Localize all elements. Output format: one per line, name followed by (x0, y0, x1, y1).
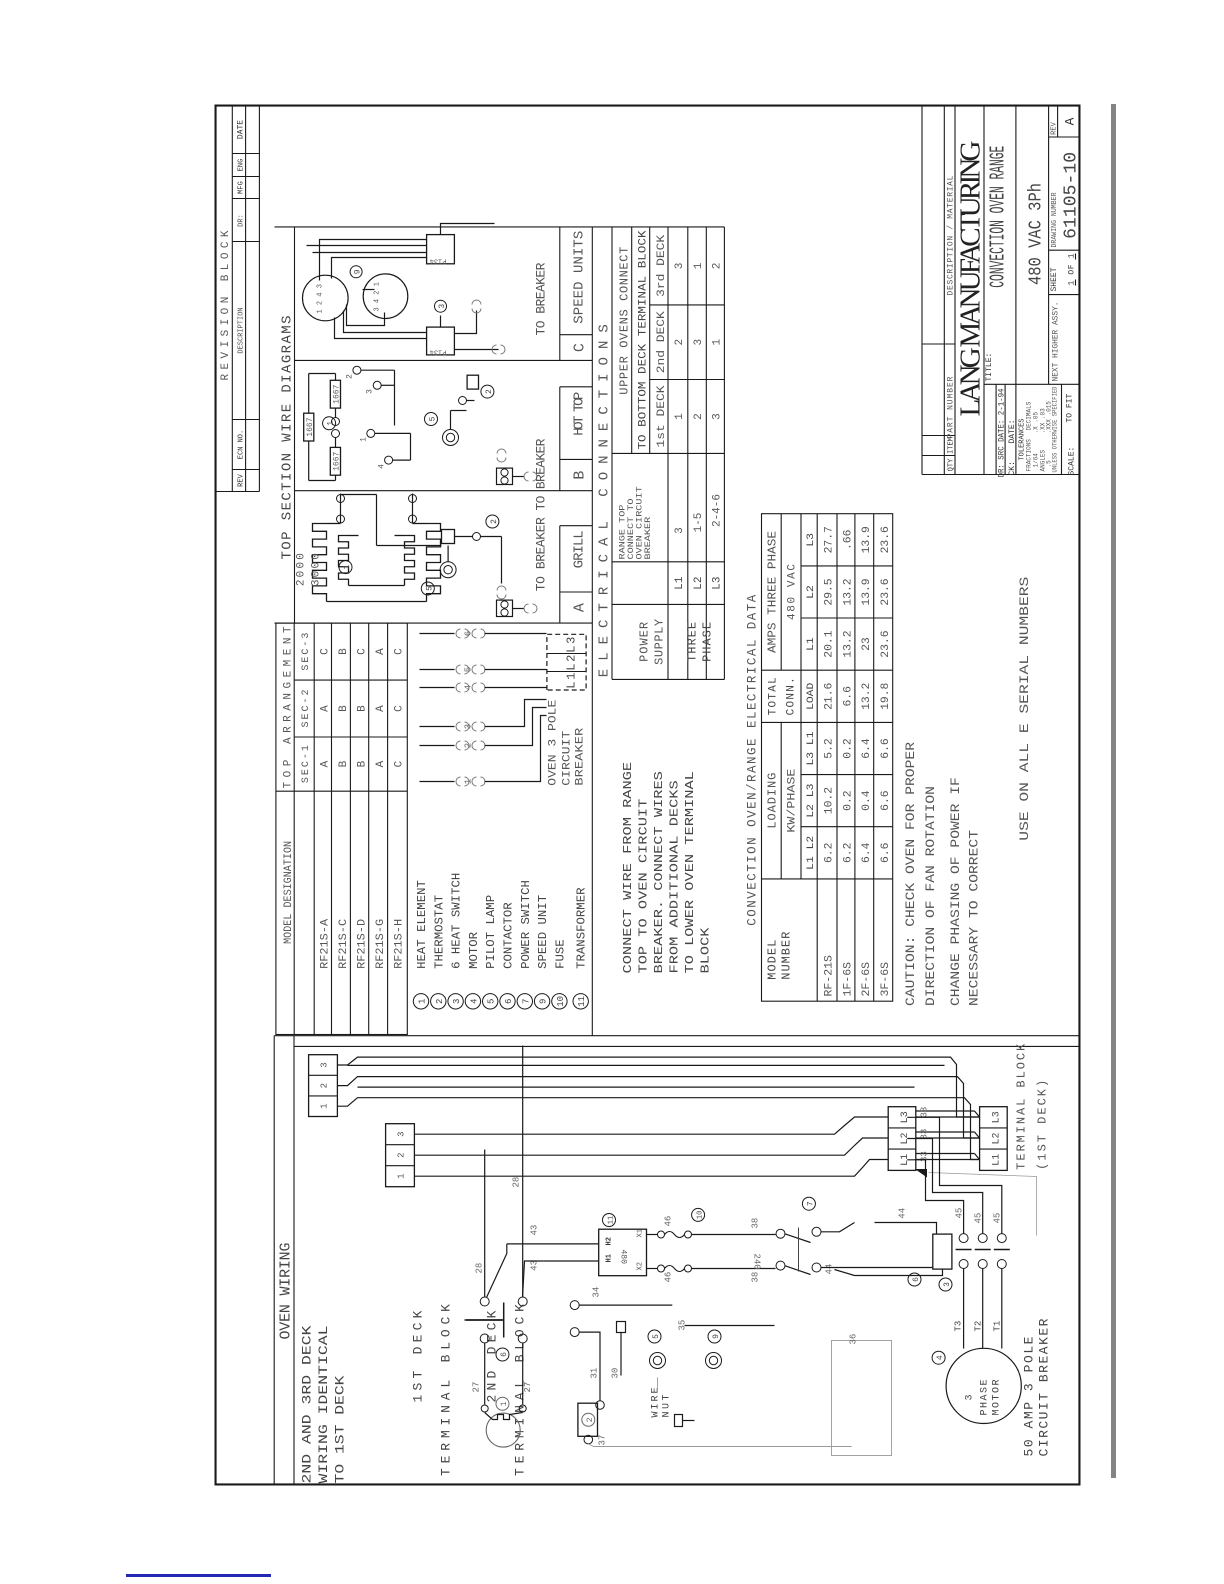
svg-text:BREAKER. CONNECT WIRES: BREAKER. CONNECT WIRES (652, 771, 666, 973)
svg-text:RF-21S: RF-21S (824, 955, 836, 997)
svg-text:6.6: 6.6 (880, 738, 892, 758)
svg-text:33: 33 (920, 1129, 930, 1140)
svg-text:6.6: 6.6 (880, 790, 892, 810)
svg-text:MFG: MFG (238, 181, 246, 194)
svg-text:A: A (1063, 117, 1078, 125)
svg-text:A: A (320, 705, 332, 712)
svg-text:DRAWING NUMBER: DRAWING NUMBER (1051, 192, 1059, 248)
svg-text:B: B (338, 705, 350, 712)
svg-text:L1: L1 (806, 637, 817, 651)
svg-text:2-4-6: 2-4-6 (712, 494, 724, 527)
svg-text:2ND AND 3RD DECK: 2ND AND 3RD DECK (300, 1325, 315, 1483)
svg-text:2: 2 (693, 413, 705, 420)
svg-text:P134: P134 (430, 348, 447, 356)
svg-text:TERMINAL BLOCK: TERMINAL BLOCK (1015, 1043, 1029, 1170)
svg-text:38: 38 (751, 1272, 761, 1283)
svg-text:27: 27 (523, 1382, 533, 1393)
svg-text:30: 30 (611, 1368, 621, 1379)
svg-text:CIRCUIT: CIRCUIT (562, 730, 574, 785)
svg-text:3rd DECK: 3rd DECK (656, 234, 668, 296)
svg-text:9: 9 (712, 1334, 721, 1339)
svg-text:A: A (375, 705, 387, 712)
svg-text:28: 28 (475, 1263, 485, 1274)
svg-text:46: 46 (664, 1272, 674, 1283)
svg-text:TO LOWER OVEN TERMINAL: TO LOWER OVEN TERMINAL (683, 771, 697, 973)
svg-text:CIRCUIT BREAKER: CIRCUIT BREAKER (1037, 1318, 1052, 1456)
svg-text:13.2: 13.2 (842, 630, 854, 657)
svg-text:REV: REV (1051, 121, 1059, 134)
svg-text:QTY: QTY (948, 458, 956, 471)
svg-text:1F-6S: 1F-6S (842, 962, 854, 997)
svg-text:SCALE:: SCALE: (1068, 447, 1077, 476)
svg-text:SEC-1: SEC-1 (301, 745, 312, 783)
svg-text:3: 3 (320, 1062, 330, 1067)
svg-text:TOP TO OVEN CIRCUIT: TOP TO OVEN CIRCUIT (637, 799, 651, 974)
svg-text:1st DECK: 1st DECK (656, 385, 668, 447)
svg-text:LOAD: LOAD (806, 683, 817, 710)
svg-text:ITEM: ITEM (948, 437, 956, 454)
svg-text:BREAKER: BREAKER (575, 727, 587, 785)
svg-text:L1: L1 (992, 1154, 1003, 1166)
svg-text:OVEN 3 POLE: OVEN 3 POLE (548, 699, 560, 785)
svg-text:TOP ARRANGEMENT: TOP ARRANGEMENT (283, 626, 295, 788)
svg-text:FROM ADDITIONAL DECKS: FROM ADDITIONAL DECKS (668, 780, 682, 973)
svg-text:MODEL: MODEL (766, 940, 780, 980)
svg-text:TO BREAKER: TO BREAKER (534, 438, 549, 510)
svg-text:C: C (394, 705, 406, 712)
svg-text:2: 2 (320, 1083, 330, 1088)
svg-text:2: 2 (586, 1417, 595, 1422)
svg-text:480 VAC 3Ph: 480 VAC 3Ph (1027, 183, 1047, 285)
svg-text:10: 10 (697, 1211, 705, 1219)
svg-text:ELECTRICAL CONNECTIONS: ELECTRICAL CONNECTIONS (597, 324, 613, 677)
svg-text:MOTOR: MOTOR (467, 932, 481, 969)
svg-text:2: 2 (397, 1152, 407, 1157)
svg-text:2000: 2000 (296, 553, 308, 586)
svg-text:BREAKER: BREAKER (644, 517, 653, 560)
svg-text:6: 6 (504, 999, 514, 1004)
svg-text:B: B (572, 471, 589, 480)
svg-text:2: 2 (712, 263, 724, 270)
svg-text:L1: L1 (674, 576, 686, 590)
svg-text:45: 45 (993, 1213, 1003, 1224)
svg-text:C: C (320, 648, 332, 655)
svg-text:L1 L2: L1 L2 (806, 836, 817, 870)
svg-text:FRACTIONS: FRACTIONS (1026, 439, 1033, 472)
svg-text:2: 2 (346, 374, 355, 379)
svg-text:C: C (394, 760, 406, 767)
svg-text:CONVECTION OVEN RANGE: CONVECTION OVEN RANGE (988, 146, 1011, 288)
svg-text:NUT: NUT (662, 1395, 673, 1418)
svg-text:WIRING IDENTICAL: WIRING IDENTICAL (316, 1326, 331, 1484)
svg-text:6.2: 6.2 (824, 843, 836, 863)
svg-text:1667: 1667 (333, 384, 342, 403)
svg-text:6: 6 (500, 1352, 509, 1357)
svg-text:POWER: POWER (638, 622, 652, 662)
svg-text:USE ON ALL E SERIAL NUMBERS: USE ON ALL E SERIAL NUMBERS (1017, 576, 1032, 840)
svg-text:B: B (356, 705, 368, 712)
svg-text:WIRE: WIRE (651, 1388, 662, 1418)
svg-text:SEC-3: SEC-3 (301, 633, 312, 671)
svg-text:T1: T1 (993, 1321, 1003, 1332)
svg-text:13.9: 13.9 (861, 526, 873, 553)
svg-text:2F-6S: 2F-6S (861, 962, 873, 997)
svg-text:TERMINAL BLOCK: TERMINAL BLOCK (439, 1304, 454, 1476)
svg-text:L3: L3 (992, 1111, 1003, 1123)
svg-text:CONNECT WIRE FROM RANGE: CONNECT WIRE FROM RANGE (621, 762, 635, 974)
svg-text:A: A (572, 603, 589, 612)
svg-text:240: 240 (752, 1254, 762, 1270)
svg-text:HEAT ELEMENT: HEAT ELEMENT (415, 880, 429, 969)
svg-text:1: 1 (500, 1401, 509, 1406)
svg-text:0.2: 0.2 (842, 790, 854, 810)
svg-text:3: 3 (397, 1131, 407, 1136)
svg-text:TRANSFORMER: TRANSFORMER (575, 888, 589, 969)
svg-text:TO BREAKER: TO BREAKER (534, 262, 549, 335)
svg-text:X2: X2 (637, 1262, 645, 1270)
svg-text:34: 34 (592, 1287, 602, 1298)
svg-text:H1: H1 (606, 1254, 614, 1262)
svg-text:45: 45 (974, 1213, 984, 1224)
svg-text:9: 9 (539, 999, 549, 1004)
svg-text:GRILL: GRILL (572, 530, 588, 568)
svg-text:2: 2 (490, 519, 499, 524)
svg-text:A: A (320, 760, 332, 767)
svg-text:SPEED UNITS: SPEED UNITS (572, 231, 588, 324)
svg-text:50 AMP 3 POLE: 50 AMP 3 POLE (1022, 1336, 1037, 1456)
svg-text:UPPER OVENS CONNECT: UPPER OVENS CONNECT (618, 247, 632, 395)
svg-text:X1: X1 (637, 1229, 645, 1237)
svg-text:DESCRIPTION: DESCRIPTION (238, 307, 246, 353)
svg-text:1: 1 (320, 1103, 330, 1108)
svg-text:44: 44 (898, 1208, 908, 1219)
svg-text:1: 1 (360, 437, 369, 442)
svg-text:3: 3 (943, 1282, 952, 1287)
svg-text:3000: 3000 (311, 553, 323, 586)
svg-text:RF21S-G: RF21S-G (375, 919, 387, 969)
svg-text:3F-6S: 3F-6S (880, 962, 892, 997)
svg-text:3: 3 (452, 999, 462, 1004)
svg-text:TOP SECTION WIRE DIAGRAMS: TOP SECTION WIRE DIAGRAMS (280, 316, 296, 560)
svg-text:B: B (338, 760, 350, 767)
svg-text:10: 10 (556, 996, 566, 1007)
svg-text:RF21S-D: RF21S-D (356, 918, 368, 968)
svg-text:7: 7 (521, 999, 531, 1004)
svg-text:11: 11 (577, 996, 587, 1007)
svg-text:27.7: 27.7 (824, 526, 836, 553)
svg-text:.66: .66 (842, 530, 854, 550)
svg-text:5: 5 (652, 1334, 661, 1339)
svg-text:(1ST DECK): (1ST DECK) (1036, 1080, 1050, 1170)
svg-text:B: B (338, 648, 350, 655)
svg-text:3: 3 (366, 389, 375, 394)
svg-text:6 HEAT SWITCH: 6 HEAT SWITCH (450, 873, 464, 969)
svg-text:19.8: 19.8 (880, 683, 892, 710)
svg-text:DIRECTION OF FAN ROTATION: DIRECTION OF FAN ROTATION (923, 786, 938, 1006)
svg-text:23.6: 23.6 (880, 526, 892, 553)
svg-text:LANG MANUFACTURING: LANG MANUFACTURING (955, 140, 987, 416)
svg-text:CHANGE PHASING OF POWER IF: CHANGE PHASING OF POWER IF (948, 777, 963, 1006)
svg-text:PILOT LAMP: PILOT LAMP (484, 895, 498, 969)
svg-text:6.2: 6.2 (842, 843, 854, 863)
svg-text:23: 23 (861, 637, 873, 651)
svg-text:23.6: 23.6 (880, 630, 892, 657)
svg-text:21.6: 21.6 (824, 683, 836, 710)
svg-text:7: 7 (806, 1201, 815, 1206)
svg-text:L1L2L3: L1L2L3 (565, 637, 579, 689)
svg-text:35: 35 (678, 1320, 688, 1331)
svg-text:C: C (394, 648, 406, 655)
svg-text:6.6: 6.6 (880, 843, 892, 863)
svg-text:C: C (356, 648, 368, 655)
svg-text:3: 3 (674, 527, 686, 534)
svg-text:A: A (375, 760, 387, 767)
svg-text:13.2: 13.2 (861, 683, 873, 710)
svg-text:T3: T3 (954, 1321, 964, 1332)
svg-text:5: 5 (429, 416, 438, 421)
svg-text:DECIMALS: DECIMALS (1026, 401, 1033, 430)
svg-text:9: 9 (354, 269, 363, 274)
svg-text:1: 1 (343, 565, 352, 570)
svg-text:C: C (572, 343, 589, 352)
svg-text:1: 1 (674, 413, 686, 420)
svg-text:20.1: 20.1 (824, 630, 836, 658)
svg-text:L3: L3 (712, 576, 724, 589)
svg-text:3: 3 (965, 1394, 976, 1400)
svg-text:SHEET: SHEET (1050, 267, 1059, 291)
svg-text:1: 1 (397, 1173, 407, 1178)
svg-text:1667: 1667 (333, 451, 342, 470)
svg-text:61105-10: 61105-10 (1062, 152, 1081, 239)
svg-text:RF21S-H: RF21S-H (394, 919, 406, 969)
svg-text:480: 480 (619, 1250, 628, 1265)
svg-text:SUPPLY: SUPPLY (653, 619, 667, 665)
svg-text:6.4: 6.4 (861, 842, 873, 863)
svg-text:0.2: 0.2 (842, 738, 854, 758)
svg-text:AMPS THREE PHASE: AMPS THREE PHASE (766, 531, 780, 653)
svg-text:5.2: 5.2 (824, 738, 836, 758)
svg-text:33: 33 (920, 1107, 930, 1118)
svg-text:44: 44 (825, 1264, 835, 1275)
svg-text:27: 27 (472, 1382, 482, 1393)
svg-text:L2: L2 (693, 576, 705, 589)
svg-text:1/64: 1/64 (1033, 453, 1040, 468)
svg-text:DR:: DR: (238, 214, 246, 227)
svg-text:4: 4 (469, 999, 479, 1004)
svg-text:L2 L3: L2 L3 (806, 784, 817, 818)
svg-text:43: 43 (530, 1225, 540, 1236)
svg-text:1667: 1667 (306, 417, 315, 436)
svg-text:FUSE: FUSE (553, 939, 567, 969)
svg-text:5: 5 (425, 586, 434, 591)
svg-text:4: 4 (936, 1355, 945, 1360)
svg-text:MOTOR: MOTOR (992, 1380, 1003, 1416)
svg-text:31: 31 (590, 1368, 600, 1379)
svg-text:POWER SWITCH: POWER SWITCH (519, 880, 533, 969)
svg-text:NEXT HIGHER ASSY.: NEXT HIGHER ASSY. (1052, 302, 1061, 382)
svg-text:HOT TOP: HOT TOP (572, 392, 588, 436)
svg-text:13.9: 13.9 (861, 578, 873, 605)
svg-text:.X .05: .X .05 (1033, 411, 1040, 433)
svg-text:PHASE: PHASE (980, 1380, 991, 1416)
svg-text:1: 1 (693, 262, 705, 269)
svg-text:NECESSARY TO CORRECT: NECESSARY TO CORRECT (967, 830, 982, 1006)
svg-text:2ND DECK: 2ND DECK (485, 1310, 500, 1402)
svg-text:1: 1 (712, 339, 724, 346)
svg-text:L2: L2 (992, 1132, 1003, 1144)
svg-text:L3 L1: L3 L1 (806, 732, 817, 766)
svg-text:13.2: 13.2 (842, 578, 854, 605)
svg-text:UNLESS OTHERWISE SPECIFIED: UNLESS OTHERWISE SPECIFIED (1052, 386, 1059, 472)
svg-text:L2: L2 (806, 585, 817, 599)
svg-text:45: 45 (955, 1208, 965, 1219)
svg-text:1 2 4 3: 1 2 4 3 (317, 284, 325, 313)
svg-text:3: 3 (712, 413, 724, 420)
svg-text:5: 5 (487, 999, 497, 1004)
svg-text:ENG: ENG (238, 159, 246, 172)
svg-text:1ST DECK: 1ST DECK (411, 1310, 426, 1402)
svg-text:T2: T2 (974, 1321, 984, 1332)
svg-text:3: 3 (674, 263, 686, 270)
svg-text:11: 11 (608, 1216, 616, 1224)
svg-text:1: 1 (418, 999, 428, 1004)
svg-text:SEC-2: SEC-2 (301, 690, 312, 728)
svg-text:DR: SRC DATE: 2-1-94: DR: SRC DATE: 2-1-94 (998, 388, 1007, 477)
svg-text:B: B (356, 760, 368, 767)
svg-text:23.6: 23.6 (880, 578, 892, 605)
svg-text:0.4: 0.4 (861, 790, 873, 811)
svg-text:TO BREAKER: TO BREAKER (534, 517, 549, 591)
svg-text:THREE: THREE (686, 622, 700, 662)
svg-text:46: 46 (664, 1216, 674, 1227)
svg-text:6: 6 (912, 1277, 921, 1282)
svg-text:P134: P134 (430, 257, 447, 265)
svg-text:PHASE: PHASE (701, 622, 715, 662)
svg-text:10.2: 10.2 (824, 787, 836, 814)
svg-text:2: 2 (485, 389, 494, 394)
svg-text:4: 4 (378, 464, 387, 469)
svg-text:RF21S-C: RF21S-C (338, 918, 350, 968)
svg-text:1-5: 1-5 (693, 513, 705, 533)
svg-text:TO 1ST DECK: TO 1ST DECK (333, 1375, 348, 1483)
svg-text:TO FIT: TO FIT (1066, 393, 1075, 422)
svg-text:NUMBER: NUMBER (780, 932, 794, 980)
svg-text:38: 38 (751, 1218, 761, 1229)
svg-text:BLOCK: BLOCK (699, 926, 713, 973)
svg-text:TOTAL: TOTAL (768, 677, 780, 715)
svg-text:28: 28 (512, 1177, 522, 1188)
svg-text:480 VAC: 480 VAC (787, 564, 799, 620)
svg-text:L3: L3 (806, 533, 817, 547)
svg-text:29.5: 29.5 (824, 578, 836, 605)
svg-text:TO BOTTOM DECK TERMINAL BLOCK: TO BOTTOM DECK TERMINAL BLOCK (638, 230, 650, 449)
svg-text:MODEL DESIGNATION: MODEL DESIGNATION (283, 841, 295, 944)
svg-text:CONTACTOR: CONTACTOR (502, 902, 516, 969)
svg-text:3: 3 (693, 339, 705, 346)
svg-text:ECN NO.: ECN NO. (238, 430, 246, 459)
svg-text:REVISION BLOCK: REVISION BLOCK (220, 230, 232, 380)
svg-text:OVEN WIRING: OVEN WIRING (278, 1243, 295, 1340)
svg-text:2: 2 (674, 339, 686, 346)
svg-text:CONVECTION OVEN/RANGE ELECTRIC: CONVECTION OVEN/RANGE ELECTRICAL DATA (746, 594, 760, 925)
svg-text:RF21S-A: RF21S-A (320, 918, 332, 968)
svg-text:THERMOSTAT: THERMOSTAT (432, 895, 446, 969)
svg-text:LOADING: LOADING (766, 773, 780, 829)
svg-text:2: 2 (435, 999, 445, 1004)
svg-text:KW/PHASE: KW/PHASE (787, 768, 799, 832)
svg-text:6.6: 6.6 (842, 686, 854, 706)
svg-text:SPEED UNIT: SPEED UNIT (536, 895, 550, 969)
svg-text:2nd DECK: 2nd DECK (656, 311, 668, 373)
svg-text:REV: REV (238, 473, 246, 486)
svg-text:CAUTION: CHECK OVEN FOR PROPER: CAUTION: CHECK OVEN FOR PROPER (903, 742, 918, 1006)
svg-text:TITLE:: TITLE: (985, 353, 994, 382)
svg-text:3 4 2 1: 3 4 2 1 (374, 282, 382, 311)
svg-text:43: 43 (530, 1260, 540, 1271)
svg-text:3: 3 (438, 304, 447, 309)
svg-text:A: A (375, 648, 387, 655)
svg-text:37: 37 (598, 1435, 608, 1446)
svg-text:36: 36 (849, 1334, 859, 1345)
svg-text:CONN.: CONN. (786, 677, 798, 715)
svg-text:H2: H2 (606, 1237, 614, 1245)
svg-text:6.4: 6.4 (861, 738, 873, 759)
svg-text:DATE: DATE (237, 120, 246, 139)
